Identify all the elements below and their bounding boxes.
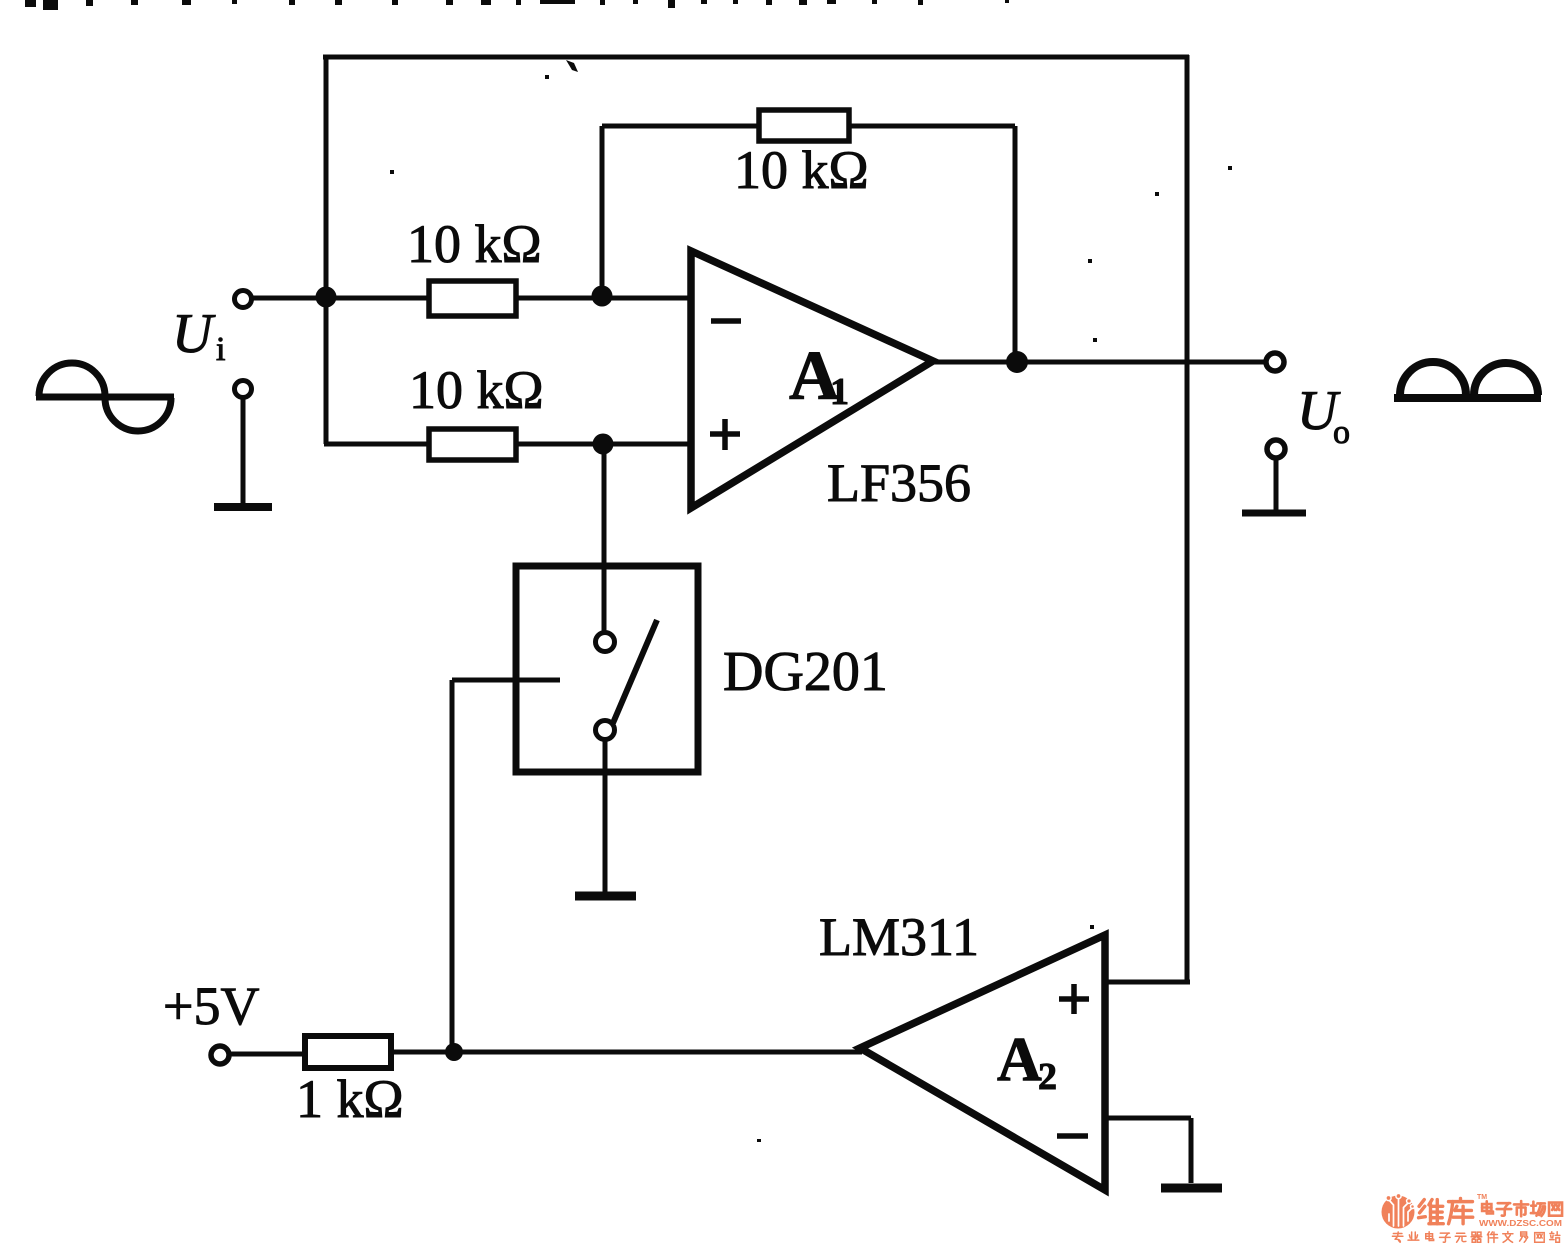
wire: noninverting input wire bbox=[324, 442, 688, 447]
resistor R 10k feedback bbox=[759, 110, 849, 141]
ground DG201 bbox=[575, 892, 636, 901]
wire: resistor to A2 output apex bbox=[391, 1050, 862, 1055]
wire: Ui lower terminal to ground bbox=[241, 398, 246, 505]
A1 plus sign bbox=[710, 419, 740, 450]
svg-text:1 kΩ: 1 kΩ bbox=[296, 1069, 404, 1129]
svg-text:10 kΩ: 10 kΩ bbox=[407, 214, 542, 274]
watermark logo bbox=[1382, 1193, 1563, 1242]
svg-text:U: U bbox=[172, 303, 216, 365]
switch DG201 box bbox=[516, 566, 698, 772]
terminal Uo upper bbox=[1266, 353, 1284, 371]
svg-text:WWW.DZSC.COM: WWW.DZSC.COM bbox=[1479, 1218, 1562, 1228]
svg-text:DG201: DG201 bbox=[723, 641, 888, 703]
ground A2 minus bbox=[1161, 1184, 1222, 1193]
wire: A2 + input to right vertical bbox=[1105, 980, 1190, 985]
wire: DG201 control vertical down to comparator output bbox=[450, 680, 455, 1052]
A2 plus sign bbox=[1059, 984, 1089, 1014]
node: input junction bbox=[316, 287, 337, 308]
A1 minus sign bbox=[711, 318, 741, 324]
A2 minus sign bbox=[1057, 1133, 1088, 1139]
wire: A1 output to Uo terminal bbox=[930, 360, 1264, 365]
svg-text:2: 2 bbox=[1038, 1056, 1057, 1098]
svg-text:+5V: +5V bbox=[163, 976, 259, 1036]
comparator A2 LM311 bbox=[860, 935, 1105, 1190]
wire: A2 - input bbox=[1105, 1116, 1191, 1121]
wire: +5V terminal to resistor bbox=[230, 1052, 305, 1057]
wire: left vertical from top wire to noninverting branch bbox=[324, 55, 329, 444]
svg-text:i: i bbox=[216, 331, 225, 368]
wire: noninverting junction down into DG201 bbox=[602, 444, 607, 632]
svg-text:LM311: LM311 bbox=[819, 907, 979, 967]
node: comparator output junction bbox=[445, 1043, 463, 1061]
svg-text:A: A bbox=[997, 1026, 1042, 1094]
sine wave source symbol bbox=[36, 394, 174, 401]
DG201 lower contact bbox=[596, 721, 615, 740]
terminal Ui lower bbox=[235, 381, 252, 398]
wire: A2 - input down to ground bbox=[1189, 1118, 1194, 1183]
svg-text:TM: TM bbox=[1477, 1194, 1487, 1201]
wire: feedback right vertical bbox=[1013, 126, 1018, 362]
svg-text:1: 1 bbox=[830, 371, 849, 413]
svg-text:10 kΩ: 10 kΩ bbox=[734, 140, 869, 200]
DG201 switch lever bbox=[613, 620, 657, 723]
logo circle icon bbox=[1382, 1196, 1415, 1229]
terminal +5V bbox=[211, 1046, 229, 1064]
op-amp A1 LF356 bbox=[691, 251, 933, 508]
logo text dian zi shi chang wang bbox=[1482, 1201, 1493, 1213]
node: inverting summing junction bbox=[592, 286, 613, 307]
wire: right vertical from top wire to A2 + input bbox=[1185, 55, 1190, 982]
output waveform symbol (full-wave humps) bbox=[1394, 394, 1541, 402]
wire: DG201 control horizontal bbox=[452, 678, 560, 683]
wire: Uo lower terminal to ground bbox=[1274, 458, 1279, 511]
terminal Ui upper bbox=[235, 291, 252, 308]
svg-text:LF356: LF356 bbox=[827, 453, 971, 513]
wire: top feedback horizontal bbox=[323, 55, 1189, 60]
svg-text:o: o bbox=[1333, 414, 1350, 451]
node: noninverting junction bbox=[593, 434, 614, 455]
wire: feedback left vertical bbox=[600, 126, 605, 296]
ground Uo bbox=[1242, 510, 1306, 517]
DG201 upper contact bbox=[596, 633, 615, 652]
resistor R 10k inverting input bbox=[429, 281, 516, 316]
resistor R 1k bbox=[305, 1036, 391, 1068]
logo slogan bbox=[1392, 1232, 1402, 1242]
wire: feedback lower horizontal bbox=[602, 124, 1015, 129]
resistor R 10k noninverting input bbox=[429, 429, 516, 460]
ground Ui bbox=[214, 503, 272, 511]
svg-text:10 kΩ: 10 kΩ bbox=[409, 360, 544, 420]
scan speck marks bbox=[390, 60, 1232, 1142]
terminal Uo lower bbox=[1267, 440, 1285, 458]
wire: inverting input wire bbox=[253, 296, 688, 301]
cropped text remnants top edge bbox=[25, 0, 1009, 10]
wire: DG201 lower contact to ground bbox=[603, 739, 608, 896]
node: A1 output junction bbox=[1006, 351, 1028, 373]
logo text wei ku bbox=[1419, 1200, 1444, 1224]
